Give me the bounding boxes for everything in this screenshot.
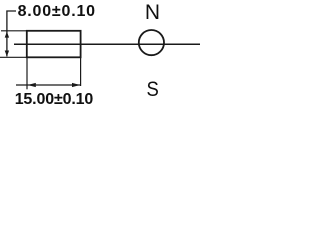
svg-text:15.00±0.10: 15.00±0.10 [15, 91, 94, 106]
svg-text:N: N [145, 1, 160, 24]
svg-text:S: S [146, 78, 158, 101]
svg-text:8.00±0.10: 8.00±0.10 [18, 3, 96, 20]
